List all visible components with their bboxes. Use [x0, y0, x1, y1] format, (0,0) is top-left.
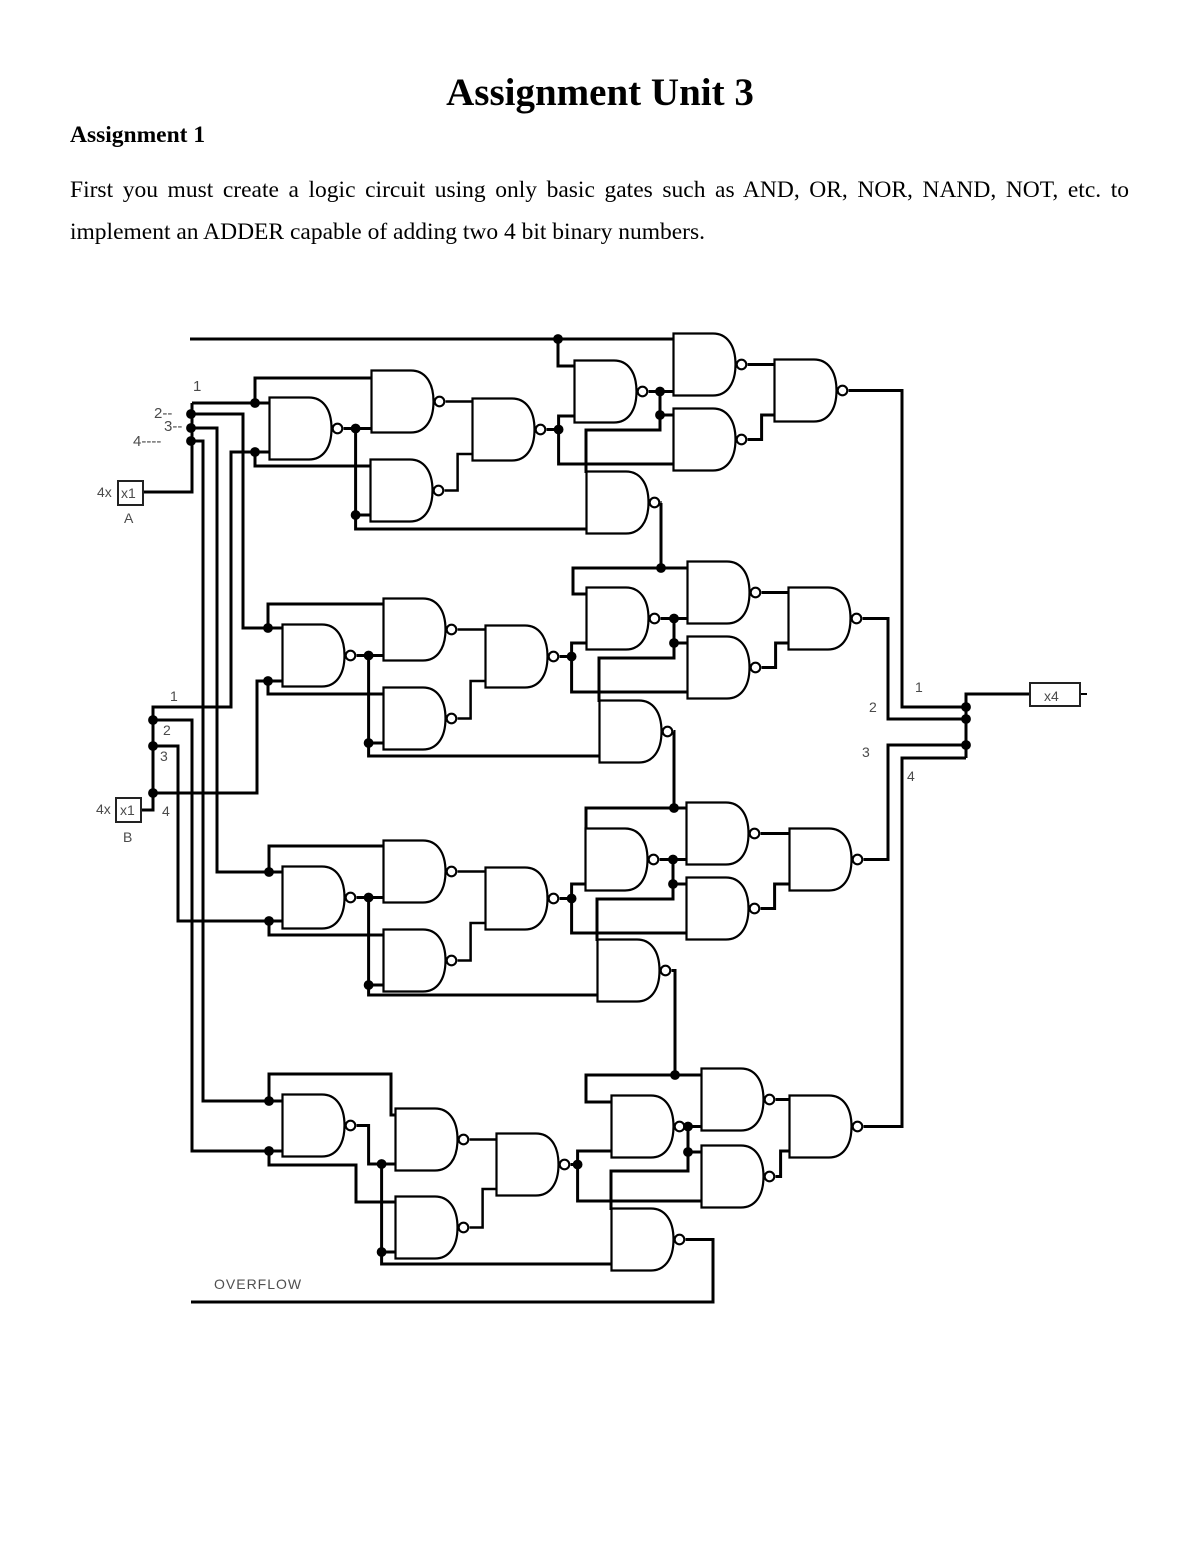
svg-text:x1: x1 — [121, 485, 136, 501]
svg-text:B: B — [123, 829, 132, 845]
svg-text:4: 4 — [162, 803, 170, 819]
svg-text:3: 3 — [160, 748, 168, 764]
svg-text:x4: x4 — [1044, 688, 1059, 704]
svg-text:x1: x1 — [120, 802, 135, 818]
svg-text:1: 1 — [170, 688, 178, 704]
svg-text:1: 1 — [915, 679, 923, 695]
svg-text:OVERFLOW: OVERFLOW — [214, 1276, 302, 1292]
svg-text:1: 1 — [193, 378, 201, 395]
svg-text:4----: 4---- — [133, 433, 161, 450]
svg-text:3: 3 — [862, 744, 870, 760]
svg-text:2: 2 — [869, 699, 877, 715]
svg-text:4x: 4x — [96, 801, 111, 817]
svg-text:4: 4 — [907, 768, 915, 784]
svg-text:3--: 3-- — [164, 418, 182, 435]
svg-text:2: 2 — [163, 722, 171, 738]
svg-text:4x: 4x — [97, 484, 112, 500]
svg-text:A: A — [124, 510, 134, 526]
